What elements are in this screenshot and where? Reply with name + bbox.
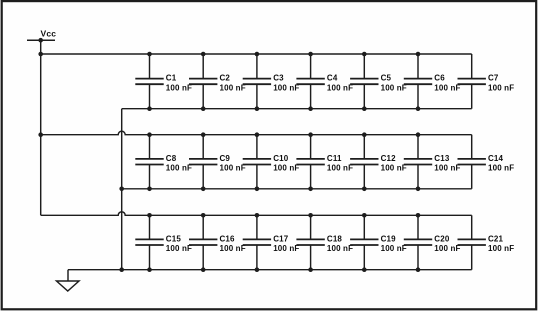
wire: C5 stub to GND rail: [363, 84, 365, 109]
capacitor C2: [189, 79, 217, 85]
wire: C11 stub to Vcc rail: [310, 135, 312, 159]
svg-text:100 nF: 100 nF: [488, 244, 514, 253]
capacitor C1: [135, 79, 163, 85]
junction: C6 at GND rail: [416, 106, 421, 111]
wire: C20 stub to GND rail: [417, 245, 419, 270]
wire: ground stem: [67, 270, 69, 281]
svg-text:100 nF: 100 nF: [434, 244, 460, 253]
junction: Vcc feed / row 2 rail: [38, 132, 43, 137]
wire: C15 stub to Vcc rail: [149, 215, 151, 239]
svg-text:100 nF: 100 nF: [273, 164, 299, 173]
svg-text:C7: C7: [488, 74, 499, 83]
svg-text:C21: C21: [488, 234, 504, 243]
junction: C17 at GND rail: [255, 267, 260, 272]
ground: [57, 281, 80, 291]
junction: C13 at Vcc rail: [416, 132, 421, 137]
capacitor C8: [135, 159, 163, 165]
junction: C19 at Vcc rail: [362, 213, 367, 218]
junction: C9 at GND rail: [201, 187, 206, 192]
wire: C19 stub to Vcc rail: [363, 215, 365, 239]
svg-text:C8: C8: [166, 154, 177, 163]
junction: C4 at Vcc rail: [308, 52, 313, 57]
capacitor C11: [296, 159, 324, 165]
wire: C7 stub to GND rail: [471, 84, 473, 109]
junction: C17 at Vcc rail: [255, 213, 260, 218]
wire: C18 stub to Vcc rail: [310, 215, 312, 239]
junction: Vcc feed / row 1 rail: [38, 52, 43, 57]
junction: Vcc terminal: [38, 38, 43, 43]
junction: C20 at Vcc rail: [416, 213, 421, 218]
wire: C18 stub to GND rail: [310, 245, 312, 270]
capacitor C17: [243, 239, 271, 245]
svg-text:100 nF: 100 nF: [166, 164, 192, 173]
wire: C6 stub to GND rail: [417, 84, 419, 109]
svg-text:100 nF: 100 nF: [166, 244, 192, 253]
capacitor C21: [458, 239, 486, 245]
wire: row 3 Vcc rail (hop over GND bus): [41, 212, 472, 215]
svg-text:100 nF: 100 nF: [381, 244, 407, 253]
wire: row 2 GND return rail: [122, 188, 472, 190]
junction: GND bus / row 2 GND rail: [119, 187, 124, 192]
wire: C9 stub to Vcc rail: [202, 135, 204, 159]
capacitor C16: [189, 239, 217, 245]
wire: C17 stub to GND rail: [256, 245, 258, 270]
wire: C8 stub to GND rail: [149, 165, 151, 189]
junction: C18 at GND rail: [308, 267, 313, 272]
capacitor C5: [350, 79, 378, 85]
junction: C13 at GND rail: [416, 187, 421, 192]
svg-text:100 nF: 100 nF: [327, 83, 353, 92]
junction: C12 at GND rail: [362, 187, 367, 192]
svg-text:100 nF: 100 nF: [327, 244, 353, 253]
junction: C6 at Vcc rail: [416, 52, 421, 57]
wire: C12 stub to Vcc rail: [363, 135, 365, 159]
svg-text:C5: C5: [381, 74, 392, 83]
junction: C1 at GND rail: [147, 106, 152, 111]
junction: GND bus / bottom GND rail: [119, 267, 124, 272]
wire: C4 stub to GND rail: [310, 84, 312, 109]
svg-text:C18: C18: [327, 234, 343, 243]
capacitor C7: [458, 79, 486, 85]
svg-text:100 nF: 100 nF: [220, 244, 246, 253]
junction: C19 at GND rail: [362, 267, 367, 272]
wire: C3 stub to GND rail: [256, 84, 258, 109]
junction: C16 at Vcc rail: [201, 213, 206, 218]
wire: C6 stub to Vcc rail: [417, 54, 419, 79]
svg-text:100 nF: 100 nF: [220, 83, 246, 92]
capacitor C20: [404, 239, 432, 245]
wire: C20 stub to Vcc rail: [417, 215, 419, 239]
svg-text:C13: C13: [434, 154, 450, 163]
capacitor C4: [296, 79, 324, 85]
wire: GND bus vertical: [121, 109, 123, 270]
wire: C8 stub to Vcc rail: [149, 135, 151, 159]
junction: C10 at GND rail: [255, 187, 260, 192]
junction: C3 at Vcc rail: [255, 52, 260, 57]
wire: row 2 Vcc rail (hop over GND bus): [41, 131, 472, 135]
capacitor C14: [458, 159, 486, 165]
wire: C1 stub to GND rail: [149, 84, 151, 109]
wire: C16 stub to Vcc rail: [202, 215, 204, 239]
svg-text:C12: C12: [381, 154, 397, 163]
wire: C17 stub to Vcc rail: [256, 215, 258, 239]
wire: C13 stub to Vcc rail: [417, 135, 419, 159]
wire: C4 stub to Vcc rail: [310, 54, 312, 79]
capacitor C15: [135, 239, 163, 245]
wire: C14 stub to GND rail: [471, 165, 473, 189]
wire: C13 stub to GND rail: [417, 165, 419, 189]
wire: C10 stub to GND rail: [256, 165, 258, 189]
svg-text:100 nF: 100 nF: [488, 83, 514, 92]
junction: C11 at Vcc rail: [308, 132, 313, 137]
svg-text:100 nF: 100 nF: [273, 244, 299, 253]
wire: C11 stub to GND rail: [310, 165, 312, 189]
capacitor C18: [296, 239, 324, 245]
svg-text:C15: C15: [166, 234, 182, 243]
junction: C18 at Vcc rail: [308, 213, 313, 218]
capacitor C6: [404, 79, 432, 85]
svg-text:C4: C4: [327, 74, 338, 83]
junction: C2 at Vcc rail: [201, 52, 206, 57]
wire: C14 stub to Vcc rail: [471, 135, 473, 159]
junction: C4 at GND rail: [308, 106, 313, 111]
wire: C7 stub to Vcc rail: [471, 54, 473, 79]
wire: C9 stub to GND rail: [202, 165, 204, 189]
wire: C16 stub to GND rail: [202, 245, 204, 270]
junction: C8 at Vcc rail: [147, 132, 152, 137]
wire: C21 stub to Vcc rail: [471, 215, 473, 239]
junction: C3 at GND rail: [255, 106, 260, 111]
wire: C12 stub to GND rail: [363, 165, 365, 189]
svg-text:C1: C1: [166, 74, 177, 83]
power symbol Vcc (terminal bar): [27, 39, 55, 41]
wire: C10 stub to Vcc rail: [256, 135, 258, 159]
svg-text:100 nF: 100 nF: [381, 83, 407, 92]
wire: C2 stub to GND rail: [202, 84, 204, 109]
junction: C20 at GND rail: [416, 267, 421, 272]
junction: C9 at Vcc rail: [201, 132, 206, 137]
junction: C5 at Vcc rail: [362, 52, 367, 57]
wire: Vcc vertical feed: [40, 40, 42, 215]
svg-text:100 nF: 100 nF: [166, 83, 192, 92]
junction: C1 at Vcc rail: [147, 52, 152, 57]
capacitor C12: [350, 159, 378, 165]
svg-text:C16: C16: [220, 234, 236, 243]
svg-text:100 nF: 100 nF: [434, 83, 460, 92]
svg-text:C10: C10: [273, 154, 289, 163]
wire: C21 stub to GND rail: [471, 245, 473, 270]
svg-text:C9: C9: [220, 154, 231, 163]
capacitor C13: [404, 159, 432, 165]
wire: row 1 GND return rail: [122, 108, 472, 110]
junction: C15 at Vcc rail: [147, 213, 152, 218]
svg-text:100 nF: 100 nF: [220, 164, 246, 173]
wire: row 1 Vcc rail: [41, 53, 472, 55]
junction: C15 at GND rail: [147, 267, 152, 272]
wire: bottom GND rail: [68, 269, 472, 271]
svg-text:C3: C3: [273, 74, 284, 83]
svg-text:100 nF: 100 nF: [434, 164, 460, 173]
wire: C1 stub to Vcc rail: [149, 54, 151, 79]
svg-text:Vcc: Vcc: [41, 28, 57, 38]
wire: C19 stub to GND rail: [363, 245, 365, 270]
svg-text:C11: C11: [327, 154, 342, 163]
junction: C16 at GND rail: [201, 267, 206, 272]
svg-text:C20: C20: [434, 234, 450, 243]
junction: C8 at GND rail: [147, 187, 152, 192]
capacitor C9: [189, 159, 217, 165]
svg-text:C19: C19: [381, 234, 397, 243]
junction: C2 at GND rail: [201, 106, 206, 111]
svg-text:C6: C6: [434, 74, 445, 83]
junction: C5 at GND rail: [362, 106, 367, 111]
svg-text:C14: C14: [488, 154, 504, 163]
capacitor C10: [243, 159, 271, 165]
wire: C15 stub to GND rail: [149, 245, 151, 270]
capacitor C3: [243, 79, 271, 85]
wire: C2 stub to Vcc rail: [202, 54, 204, 79]
svg-text:100 nF: 100 nF: [327, 164, 353, 173]
junction: C10 at Vcc rail: [255, 132, 260, 137]
svg-text:C17: C17: [273, 234, 289, 243]
svg-text:100 nF: 100 nF: [488, 164, 514, 173]
svg-text:100 nF: 100 nF: [381, 164, 407, 173]
capacitor C19: [350, 239, 378, 245]
junction: C12 at Vcc rail: [362, 132, 367, 137]
svg-text:C2: C2: [220, 74, 231, 83]
wire: C3 stub to Vcc rail: [256, 54, 258, 79]
junction: C11 at GND rail: [308, 187, 313, 192]
wire: C5 stub to Vcc rail: [363, 54, 365, 79]
svg-text:100 nF: 100 nF: [273, 83, 299, 92]
